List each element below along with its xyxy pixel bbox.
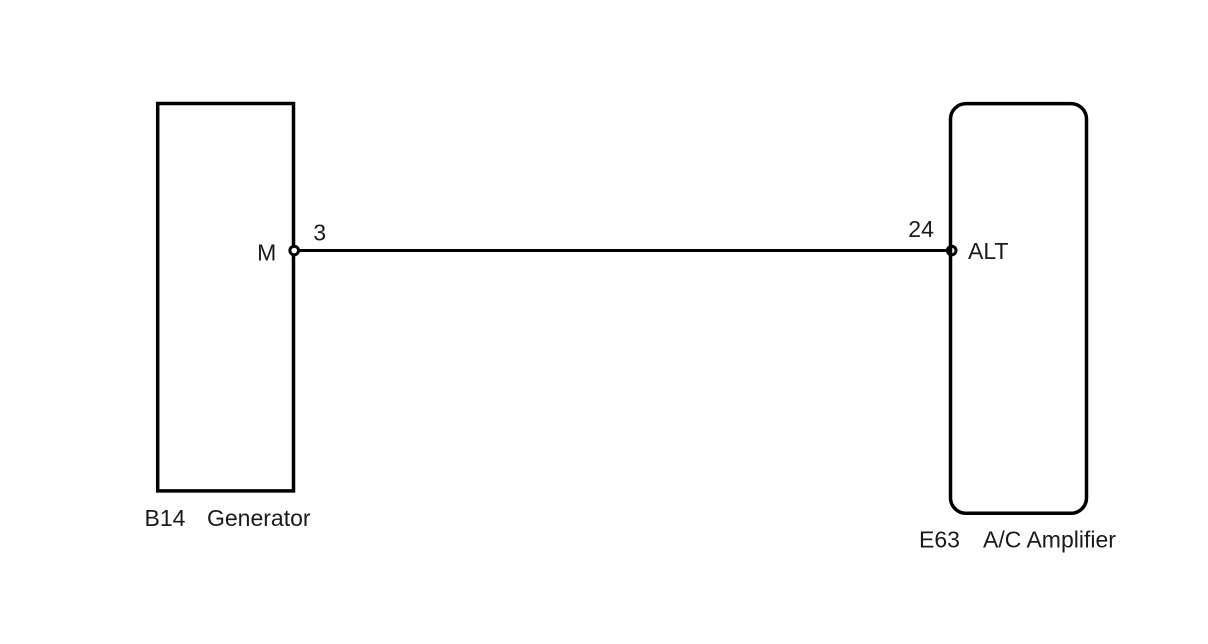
connector block B14 (Generator) <box>158 104 294 491</box>
svg-text:A/C Amplifier: A/C Amplifier <box>983 527 1116 553</box>
wire pin3 to pin24 <box>294 249 952 252</box>
svg-text:24: 24 <box>908 216 934 242</box>
node pin 3 terminal <box>290 246 299 255</box>
svg-text:3: 3 <box>313 220 326 246</box>
svg-text:Generator: Generator <box>207 505 311 531</box>
svg-text:E63: E63 <box>919 527 960 553</box>
node pin 24 terminal <box>947 246 956 255</box>
svg-text:B14: B14 <box>145 505 186 531</box>
svg-text:ALT: ALT <box>968 238 1008 264</box>
connector block E63 (A/C Amplifier) <box>951 104 1087 514</box>
svg-text:M: M <box>257 240 276 266</box>
